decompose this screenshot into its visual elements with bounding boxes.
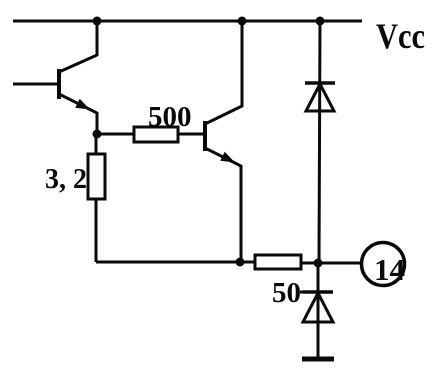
svg-text:50: 50 [272, 277, 301, 309]
svg-text:3, 2: 3, 2 [45, 164, 87, 195]
svg-text:14: 14 [374, 252, 405, 287]
svg-text:500: 500 [148, 101, 192, 133]
svg-text:Vcc: Vcc [376, 16, 425, 56]
